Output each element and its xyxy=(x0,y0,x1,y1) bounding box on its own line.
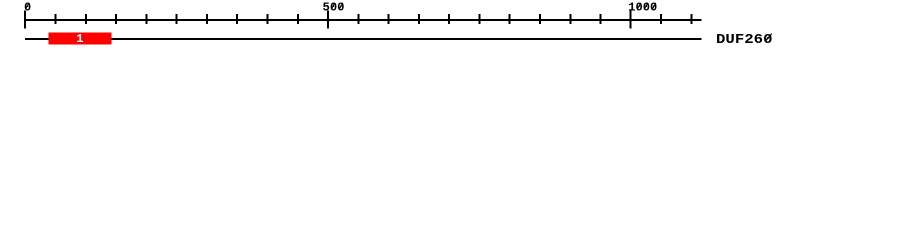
ruler major tick 0 xyxy=(24,11,26,29)
ruler minor tick 750 xyxy=(479,14,481,24)
ruler minor tick 150 xyxy=(115,14,117,24)
ruler minor tick 650 xyxy=(418,14,420,24)
ruler minor tick 800 xyxy=(509,14,511,24)
slashed-zero stroke in domain name label DUF260 xyxy=(765,34,772,42)
ruler minor tick 550 xyxy=(357,14,359,24)
sequence backbone line xyxy=(25,38,702,40)
ruler minor tick 200 xyxy=(145,14,147,24)
slashed-zero strokes in ruler label 1000 xyxy=(637,3,641,9)
svg-text:1: 1 xyxy=(76,32,83,46)
ruler minor tick 600 xyxy=(388,14,390,24)
ruler minor tick 300 xyxy=(206,14,208,24)
ruler minor tick 850 xyxy=(539,14,541,24)
svg-text:DUF260: DUF260 xyxy=(716,32,773,48)
svg-text:500: 500 xyxy=(323,0,345,14)
ruler minor tick 250 xyxy=(176,14,178,24)
domain box DUF260 region 1 xyxy=(49,33,112,45)
ruler minor tick 900 xyxy=(569,14,571,24)
ruler minor tick 1050 xyxy=(660,14,662,24)
ruler minor tick 1100 xyxy=(690,14,692,24)
slashed-zero strokes in ruler label 500 xyxy=(331,3,335,9)
ruler minor tick 100 xyxy=(85,14,87,24)
ruler minor tick 700 xyxy=(448,14,450,24)
slashed-zero stroke in ruler label 0 xyxy=(25,3,29,9)
ruler minor tick 50 xyxy=(55,14,57,24)
ruler minor tick 950 xyxy=(600,14,602,24)
ruler minor tick 450 xyxy=(297,14,299,24)
ruler minor tick 350 xyxy=(236,14,238,24)
ruler axis line xyxy=(25,19,702,21)
ruler major tick 1000 xyxy=(630,11,632,29)
ruler minor tick 400 xyxy=(267,14,269,24)
ruler major tick 500 xyxy=(327,11,329,29)
